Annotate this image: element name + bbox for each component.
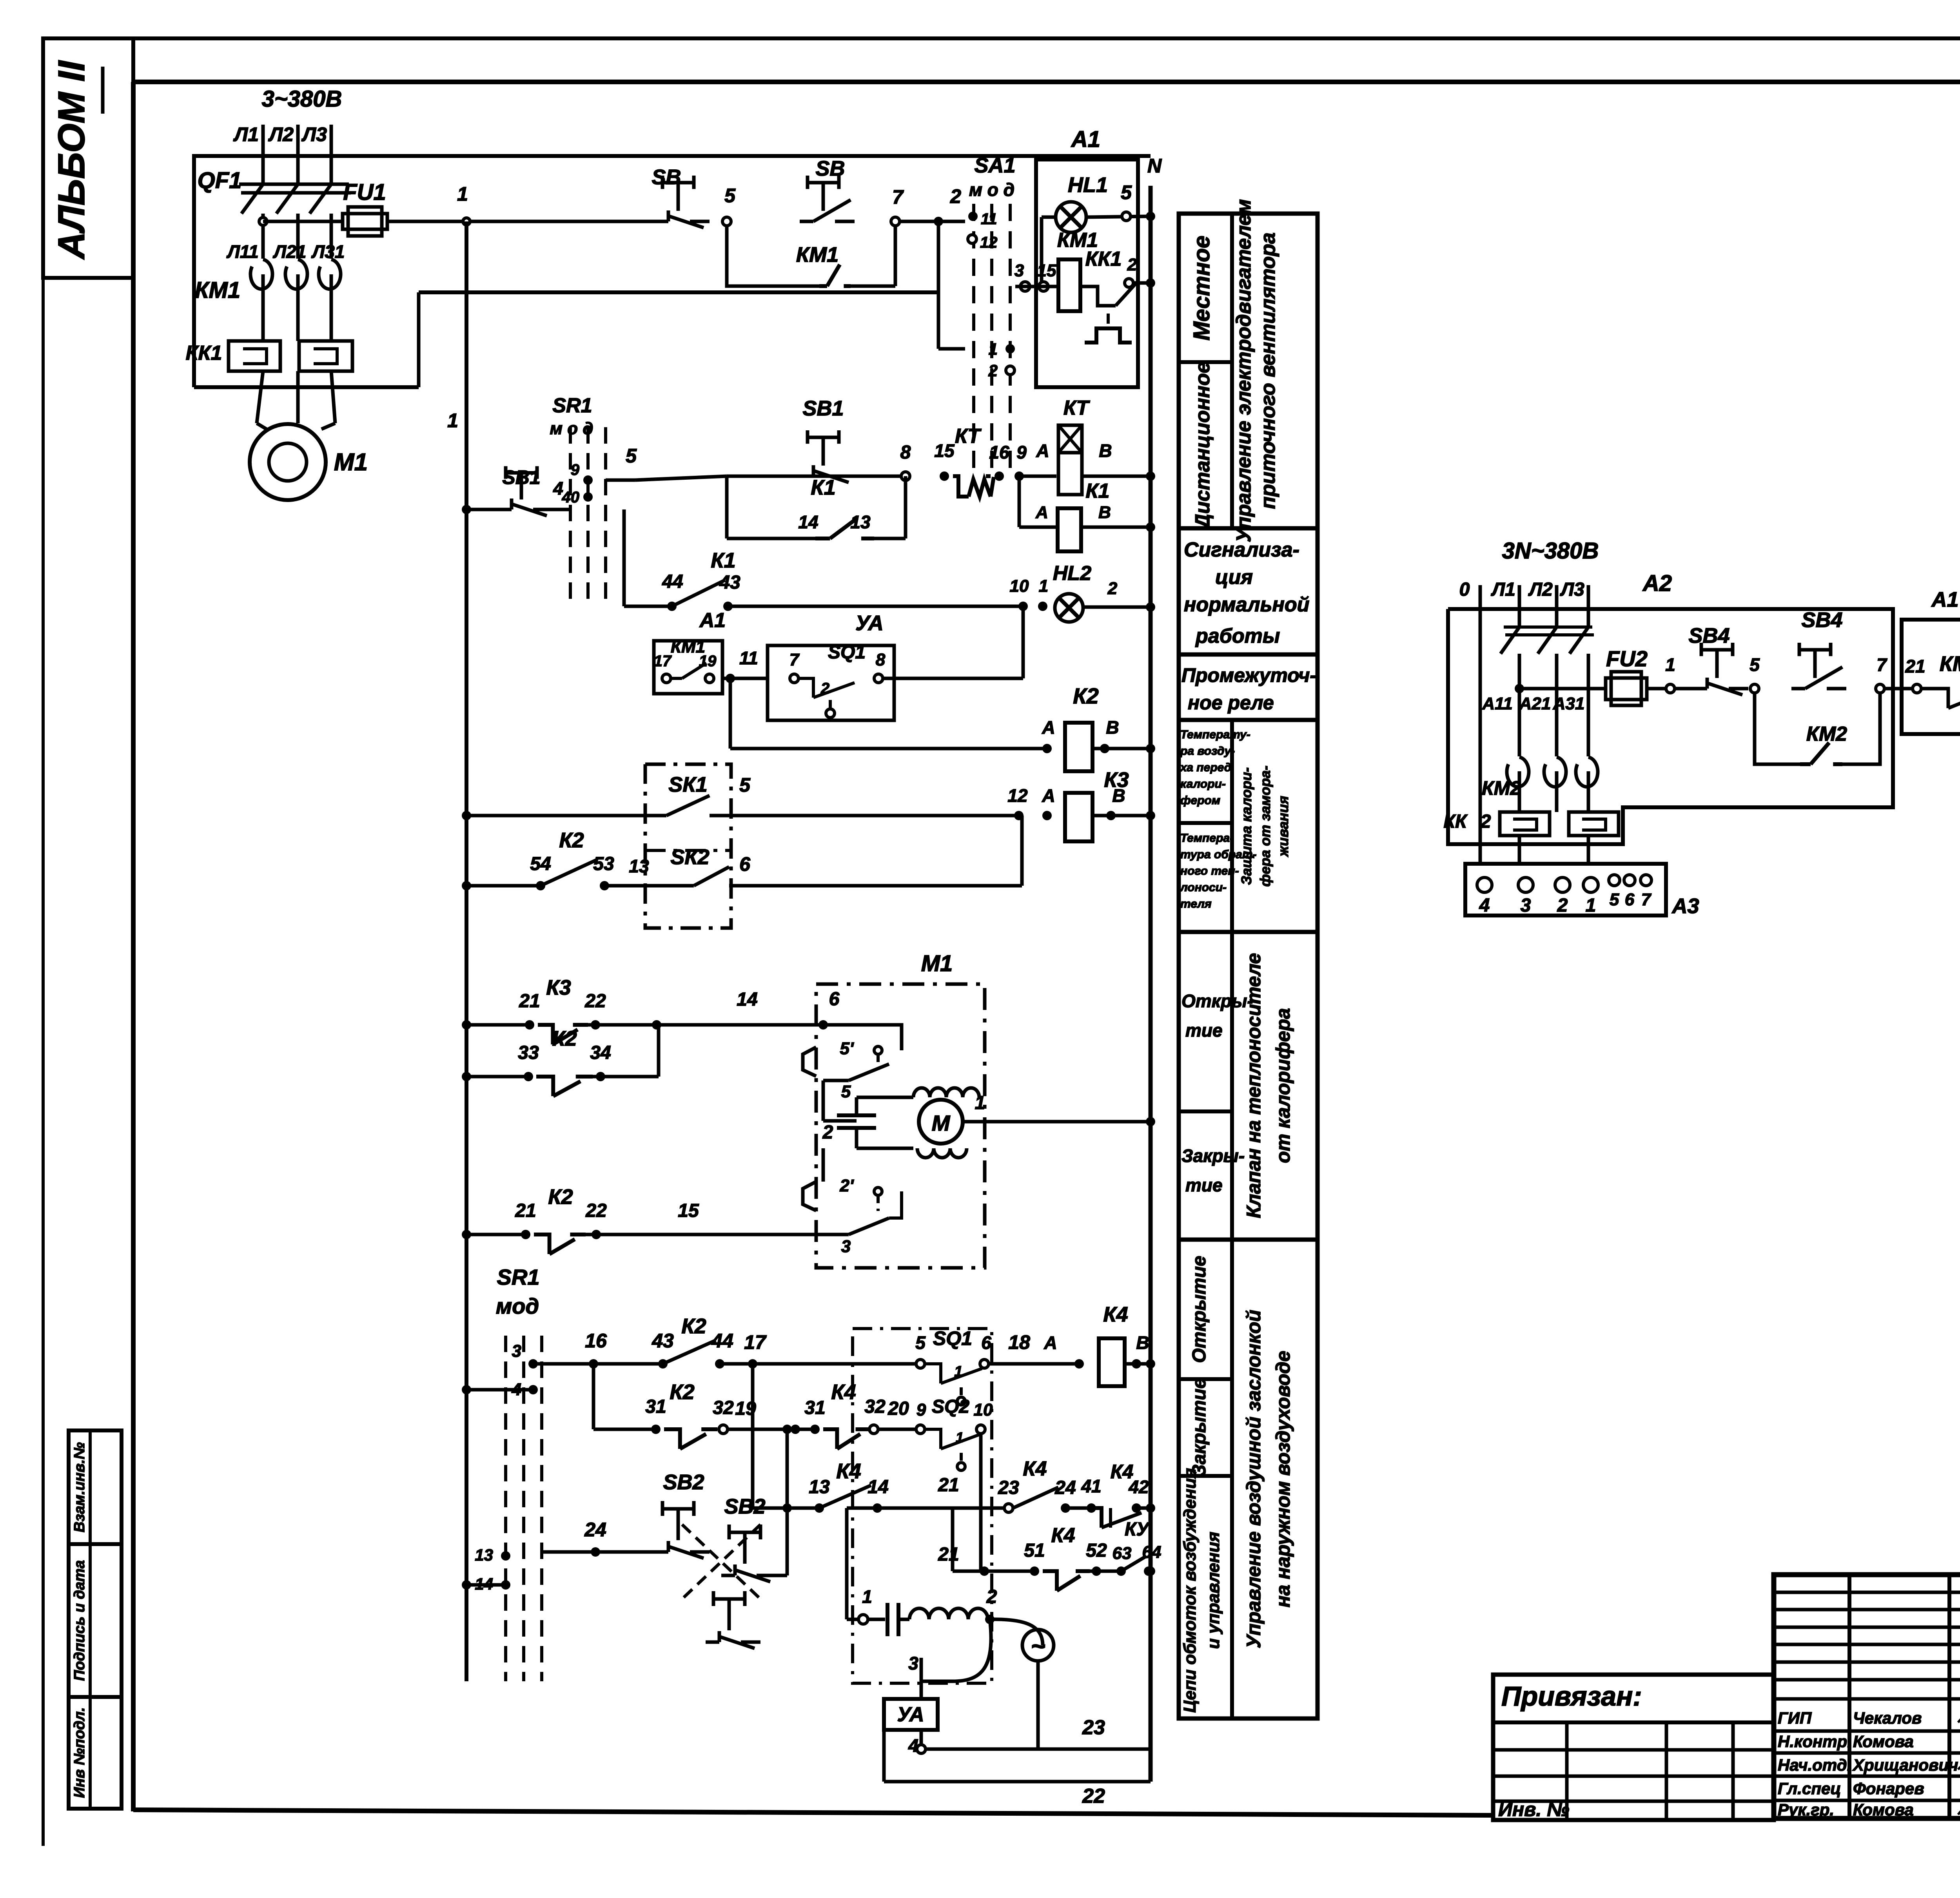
svg-text:12: 12: [1007, 785, 1028, 806]
svg-text:41: 41: [1081, 1476, 1101, 1496]
svg-text:8: 8: [876, 650, 886, 669]
svg-text:Привязан:: Привязан:: [1501, 1681, 1642, 1711]
svg-text:лоноси-: лоноси-: [1180, 881, 1227, 894]
svg-text:4: 4: [908, 1735, 918, 1756]
svg-text:фером: фером: [1180, 794, 1220, 807]
svg-text:N: N: [1147, 155, 1162, 177]
svg-text:КМ1: КМ1: [796, 243, 838, 266]
svg-text:SQ2: SQ2: [932, 1396, 969, 1417]
svg-text:33: 33: [518, 1042, 539, 1063]
svg-text:А11: А11: [1482, 694, 1512, 713]
svg-text:К2: К2: [670, 1380, 694, 1404]
svg-text:Л11: Л11: [226, 241, 258, 262]
svg-text:SQ1: SQ1: [828, 642, 866, 663]
svg-text:6: 6: [981, 1332, 991, 1353]
svg-text:Л2: Л2: [268, 123, 294, 145]
svg-text:3: 3: [908, 1653, 918, 1673]
svg-text:53: 53: [593, 854, 614, 874]
svg-text:К2: К2: [681, 1314, 706, 1338]
svg-text:5': 5': [840, 1039, 854, 1058]
svg-text:КУ: КУ: [1125, 1519, 1151, 1540]
svg-text:и управления: и управления: [1204, 1532, 1223, 1649]
svg-text:40: 40: [562, 489, 580, 506]
svg-text:В: В: [1136, 1332, 1149, 1353]
svg-text:Управление электродвигателем: Управление электродвигателем: [1232, 199, 1255, 542]
svg-text:32: 32: [713, 1398, 734, 1418]
svg-text:В: В: [1098, 503, 1111, 522]
svg-text:4: 4: [1479, 895, 1490, 916]
svg-text:7: 7: [1877, 654, 1887, 675]
svg-text:6: 6: [829, 989, 840, 1010]
svg-text:2: 2: [820, 680, 829, 697]
svg-text:32: 32: [864, 1396, 886, 1417]
svg-text:24: 24: [584, 1519, 606, 1541]
svg-text:QF1: QF1: [198, 168, 242, 193]
svg-text:Нач.отд.: Нач.отд.: [1778, 1756, 1851, 1774]
svg-text:21: 21: [519, 991, 540, 1012]
svg-text:тие: тие: [1185, 1175, 1223, 1195]
svg-text:К4: К4: [1023, 1457, 1047, 1480]
svg-text:М1: М1: [921, 951, 953, 976]
svg-text:11: 11: [981, 210, 997, 228]
svg-text:6: 6: [739, 853, 751, 875]
svg-text:А3: А3: [1671, 894, 1699, 918]
svg-text:13: 13: [629, 856, 649, 876]
svg-text:10: 10: [974, 1400, 993, 1419]
svg-text:Гл.спец: Гл.спец: [1778, 1779, 1841, 1798]
svg-text:Н.контр.: Н.контр.: [1778, 1732, 1852, 1751]
svg-text:АЛЬБОМ II: АЛЬБОМ II: [51, 60, 93, 260]
svg-text:7: 7: [892, 186, 904, 208]
svg-text:ция: ция: [1215, 566, 1253, 589]
svg-text:FU1: FU1: [343, 179, 386, 205]
svg-text:SВ2: SВ2: [724, 1495, 765, 1518]
svg-text:SВ1: SВ1: [802, 397, 844, 420]
svg-text:живания: живания: [1275, 796, 1291, 857]
svg-text:3: 3: [1521, 895, 1531, 916]
svg-text:Л31: Л31: [311, 241, 345, 262]
svg-text:5: 5: [626, 445, 637, 467]
svg-text:31: 31: [804, 1398, 825, 1418]
svg-text:1: 1: [1665, 654, 1675, 675]
svg-text:Управление воздушной заслонкой: Управление воздушной заслонкой: [1243, 1310, 1265, 1648]
svg-text:Л3: Л3: [301, 123, 327, 145]
svg-text:2: 2: [1127, 255, 1137, 274]
svg-text:В: В: [1099, 441, 1112, 461]
svg-text:Темпера-: Темпера-: [1180, 832, 1234, 845]
svg-text:мод: мод: [496, 1294, 539, 1318]
svg-text:16: 16: [585, 1330, 607, 1352]
svg-text:SВ4: SВ4: [1801, 608, 1842, 632]
svg-text:Открытие: Открытие: [1189, 1256, 1210, 1363]
svg-text:24: 24: [1054, 1477, 1076, 1498]
svg-text:3: 3: [1014, 261, 1024, 280]
svg-text:Взам.инв.№: Взам.инв.№: [71, 1442, 88, 1532]
svg-text:23: 23: [998, 1477, 1019, 1498]
svg-text:1: 1: [1586, 895, 1596, 916]
svg-text:64: 64: [1142, 1543, 1161, 1562]
svg-text:КТ: КТ: [1063, 397, 1091, 419]
svg-text:КК1: КК1: [1085, 248, 1122, 270]
svg-text:Л2: Л2: [1528, 579, 1553, 600]
svg-text:52: 52: [1086, 1540, 1107, 1561]
svg-text:К4: К4: [1103, 1303, 1128, 1326]
svg-text:К4: К4: [1051, 1524, 1075, 1547]
svg-text:нормальной: нормальной: [1184, 593, 1309, 616]
svg-text:ГИП: ГИП: [1778, 1709, 1812, 1727]
svg-text:Л1: Л1: [1491, 579, 1515, 600]
svg-text:К4: К4: [1111, 1461, 1134, 1483]
svg-text:Чекалов: Чекалов: [1853, 1709, 1922, 1727]
svg-text:SА1: SА1: [974, 154, 1015, 177]
svg-text:КК1: КК1: [186, 342, 222, 364]
svg-text:Комова: Комова: [1853, 1732, 1914, 1751]
svg-text:FU2: FU2: [1606, 646, 1648, 671]
svg-text:Л1: Л1: [233, 123, 259, 145]
svg-text:17: 17: [744, 1331, 767, 1353]
svg-text:Температу-: Температу-: [1180, 728, 1250, 741]
svg-text:Л3: Л3: [1560, 579, 1584, 600]
svg-text:SВ2: SВ2: [663, 1470, 704, 1494]
svg-text:Сигнализа-: Сигнализа-: [1184, 538, 1299, 561]
svg-text:2: 2: [950, 185, 961, 207]
svg-text:8: 8: [900, 442, 911, 463]
svg-text:5: 5: [841, 1082, 851, 1101]
svg-text:13: 13: [850, 512, 871, 532]
svg-text:0: 0: [1459, 579, 1470, 600]
svg-text:1: 1: [457, 183, 468, 205]
svg-text:Местное: Местное: [1189, 236, 1214, 341]
svg-text:ного теп-: ного теп-: [1180, 865, 1239, 877]
svg-text:В: В: [1112, 785, 1125, 806]
svg-text:А21: А21: [1519, 694, 1551, 713]
svg-text:В: В: [1106, 717, 1119, 738]
svg-text:15: 15: [934, 441, 955, 461]
svg-text:14: 14: [737, 989, 757, 1010]
svg-text:Рук.гр.: Рук.гр.: [1778, 1800, 1834, 1819]
svg-text:12: 12: [980, 234, 998, 251]
svg-text:~: ~: [1031, 1632, 1045, 1660]
svg-text:19: 19: [735, 1398, 756, 1419]
svg-text:К1: К1: [1086, 480, 1110, 502]
svg-text:приточного вентилятора: приточного вентилятора: [1257, 232, 1279, 509]
svg-text:К1: К1: [711, 549, 735, 572]
svg-text:А: А: [1036, 441, 1049, 461]
svg-text:SВ: SВ: [815, 157, 845, 180]
svg-text:SВ1: SВ1: [502, 466, 540, 488]
svg-text:НL2: НL2: [1053, 562, 1091, 585]
svg-text:2': 2': [840, 1176, 854, 1195]
svg-text:А2: А2: [1642, 571, 1672, 596]
svg-text:22: 22: [1082, 1785, 1105, 1807]
svg-text:5: 5: [724, 185, 736, 207]
svg-text:1: 1: [862, 1586, 872, 1607]
svg-text:21: 21: [515, 1200, 536, 1221]
svg-text:УА: УА: [897, 1703, 924, 1726]
svg-text:работы: работы: [1195, 625, 1280, 647]
svg-text:А: А: [1042, 785, 1055, 806]
svg-text:3~380В: 3~380В: [262, 86, 342, 112]
svg-text:2: 2: [1107, 579, 1118, 598]
svg-text:7: 7: [789, 650, 800, 669]
svg-text:Цепи обмоток возбуждения: Цепи обмоток возбуждения: [1180, 1468, 1200, 1713]
svg-text:43: 43: [719, 572, 740, 593]
svg-text:19: 19: [699, 653, 717, 670]
svg-text:SК1: SК1: [668, 773, 707, 796]
svg-text:А1: А1: [1931, 588, 1958, 611]
svg-text:SR1: SR1: [497, 1265, 540, 1289]
svg-text:44: 44: [711, 1330, 733, 1352]
svg-text:КМ1: КМ1: [1940, 652, 1960, 676]
svg-text:15: 15: [678, 1200, 699, 1221]
svg-text:14: 14: [798, 512, 818, 532]
svg-text:КМ2: КМ2: [1806, 723, 1847, 745]
svg-text:17: 17: [654, 653, 672, 670]
svg-text:2: 2: [822, 1122, 833, 1143]
svg-text:А31: А31: [1553, 694, 1585, 713]
svg-text:2: 2: [986, 1586, 997, 1607]
svg-text:Дистанционное: Дистанционное: [1191, 362, 1214, 530]
svg-text:16: 16: [989, 442, 1009, 462]
svg-text:ное реле: ное реле: [1188, 692, 1274, 714]
svg-text:ха перед: ха перед: [1180, 761, 1231, 774]
svg-text:6: 6: [1625, 890, 1635, 909]
svg-text:31: 31: [645, 1396, 666, 1417]
svg-text:ра возду-: ра возду-: [1180, 745, 1235, 758]
svg-text:9: 9: [1016, 442, 1027, 462]
svg-text:Инв №подл.: Инв №подл.: [71, 1707, 88, 1798]
svg-text:15: 15: [1037, 261, 1056, 280]
svg-text:5: 5: [1121, 181, 1132, 203]
svg-text:3: 3: [841, 1237, 851, 1256]
svg-text:21: 21: [938, 1475, 959, 1496]
svg-text:КМ1: КМ1: [195, 277, 240, 303]
svg-text:18: 18: [1008, 1331, 1030, 1353]
svg-text:SК2: SК2: [670, 845, 709, 869]
svg-text:Инв. №: Инв. №: [1498, 1798, 1569, 1820]
svg-text:К2: К2: [559, 828, 584, 852]
svg-text:тие: тие: [1185, 1020, 1223, 1041]
svg-text:КМ2: КМ2: [1482, 777, 1521, 799]
svg-text:1: 1: [956, 1429, 964, 1445]
svg-text:14: 14: [867, 1477, 888, 1497]
svg-text:SQ1: SQ1: [933, 1327, 972, 1349]
svg-text:Подпись и дата: Подпись и дата: [71, 1560, 88, 1681]
svg-text:1: 1: [447, 410, 458, 431]
svg-text:К4: К4: [836, 1459, 861, 1483]
svg-text:1: 1: [975, 1093, 985, 1113]
svg-text:А1: А1: [699, 609, 726, 632]
svg-text:КТ: КТ: [955, 425, 982, 448]
svg-text:3: 3: [512, 1341, 521, 1361]
svg-text:А: А: [1044, 1332, 1057, 1353]
svg-text:54: 54: [530, 854, 551, 874]
svg-text:теля: теля: [1180, 897, 1212, 910]
svg-text:2: 2: [1480, 811, 1491, 832]
svg-text:2: 2: [1557, 895, 1568, 916]
svg-text:9: 9: [916, 1400, 926, 1419]
svg-text:1: 1: [989, 340, 998, 358]
svg-text:К2: К2: [1073, 683, 1099, 708]
svg-text:калори-: калори-: [1180, 778, 1226, 790]
svg-text:11: 11: [739, 648, 758, 668]
svg-text:4: 4: [553, 478, 563, 499]
svg-text:А: А: [1042, 717, 1055, 738]
svg-text:Клапан на теплоносителе: Клапан на теплоносителе: [1243, 953, 1265, 1218]
svg-text:2: 2: [988, 361, 998, 380]
svg-text:м о д: м о д: [969, 179, 1014, 200]
svg-text:9: 9: [571, 461, 580, 479]
svg-text:23: 23: [1082, 1716, 1105, 1739]
svg-text:К2: К2: [552, 1027, 577, 1050]
svg-text:м о д: м о д: [550, 419, 593, 438]
svg-text:20: 20: [887, 1398, 909, 1419]
svg-text:К1: К1: [811, 476, 835, 499]
svg-text:44: 44: [662, 571, 683, 592]
svg-text:51: 51: [1024, 1540, 1045, 1561]
svg-text:А1: А1: [1071, 127, 1100, 152]
svg-text:Промежуточ-: Промежуточ-: [1181, 664, 1316, 686]
svg-text:13: 13: [809, 1477, 830, 1497]
svg-text:фера от замора-: фера от замора-: [1257, 766, 1273, 887]
svg-text:SR1: SR1: [552, 394, 592, 417]
svg-text:НL1: НL1: [1068, 173, 1108, 197]
svg-text:на наружном воздуховоде: на наружном воздуховоде: [1272, 1351, 1294, 1607]
svg-text:22: 22: [584, 991, 606, 1012]
svg-text:3N~380В: 3N~380В: [1502, 538, 1599, 564]
svg-text:SВ4: SВ4: [1688, 624, 1730, 647]
svg-text:5: 5: [1610, 890, 1619, 909]
svg-text:22: 22: [585, 1200, 607, 1221]
svg-text:5: 5: [739, 774, 751, 796]
svg-text:1: 1: [1039, 576, 1048, 596]
svg-text:М: М: [932, 1111, 951, 1135]
svg-text:Закрытие: Закрытие: [1189, 1378, 1210, 1477]
svg-text:43: 43: [652, 1330, 674, 1352]
svg-text:Фонарев: Фонарев: [1853, 1779, 1924, 1798]
svg-text:13: 13: [475, 1546, 493, 1564]
svg-text:21: 21: [938, 1544, 959, 1565]
svg-text:А: А: [1035, 503, 1048, 522]
svg-text:Закры-: Закры-: [1181, 1146, 1245, 1166]
svg-text:21: 21: [1905, 656, 1925, 676]
svg-text:УА: УА: [855, 611, 884, 635]
svg-text:М1: М1: [334, 449, 368, 476]
svg-text:КК: КК: [1443, 811, 1468, 832]
svg-text:SВ: SВ: [652, 165, 681, 189]
svg-text:от калорифера: от калорифера: [1272, 1008, 1294, 1163]
svg-text:Хрищанович: Хрищанович: [1852, 1756, 1958, 1774]
svg-text:Комова: Комова: [1853, 1800, 1914, 1819]
svg-text:34: 34: [590, 1042, 611, 1063]
svg-text:К2: К2: [548, 1185, 573, 1209]
svg-text:1: 1: [954, 1363, 962, 1380]
svg-text:Л21: Л21: [273, 241, 307, 262]
svg-text:63: 63: [1112, 1544, 1132, 1563]
svg-text:7: 7: [1641, 890, 1652, 909]
svg-text:К3: К3: [546, 976, 571, 999]
svg-text:10: 10: [1010, 576, 1029, 596]
svg-text:5: 5: [915, 1332, 926, 1353]
svg-text:5: 5: [1749, 654, 1760, 675]
svg-text:Защита калори-: Защита калори-: [1238, 767, 1254, 885]
